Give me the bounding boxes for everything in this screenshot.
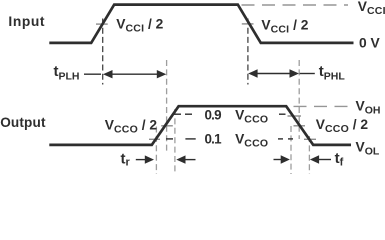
svg-text:VCCI / 2: VCCI / 2 [116,17,163,35]
svg-text:0.1: 0.1 [205,131,223,146]
svg-text:VOL: VOL [356,139,380,157]
svg-text:tPLH: tPLH [54,63,80,82]
svg-text:Input: Input [8,14,45,29]
svg-text:VCCO: VCCO [235,107,268,125]
svg-text:VCCO: VCCO [235,131,268,149]
svg-text:VCCO / 2: VCCO / 2 [105,117,158,135]
svg-text:VCCO / 2: VCCO / 2 [316,117,369,135]
svg-text:0 V: 0 V [359,35,381,50]
svg-text:tf: tf [335,150,344,168]
svg-text:0.9: 0.9 [205,107,222,122]
svg-text:VOH: VOH [356,98,381,116]
svg-text:tr: tr [121,150,131,168]
svg-text:Output: Output [0,115,46,130]
svg-text:VCCI / 2: VCCI / 2 [261,17,308,35]
svg-text:tPHL: tPHL [319,63,346,82]
svg-text:VCCI: VCCI [358,0,385,17]
